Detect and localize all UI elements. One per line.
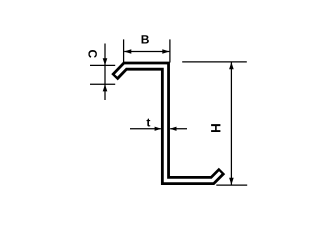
dimension C: upper arrowhead (points down) <box>103 58 108 65</box>
dimension C: lower extension line <box>90 83 115 85</box>
dimension B: dimension line <box>124 51 169 53</box>
dimension B: left arrowhead <box>124 49 131 54</box>
dimension H: lower arrowhead (points down) <box>229 178 234 185</box>
label C (rotated) <box>88 50 97 58</box>
dimension C: vertical dimension line <box>104 44 106 101</box>
label B <box>142 35 149 43</box>
label H (rotated) <box>211 124 220 132</box>
dimension B: left extension line <box>123 39 125 62</box>
dimension H: lower extension line <box>216 184 247 186</box>
dimension H: upper arrowhead (points up) <box>229 62 234 69</box>
dimension H: upper extension line <box>182 61 247 63</box>
dimension t: right arrowhead (points left) <box>170 127 177 131</box>
label t <box>147 119 151 127</box>
dimension C: lower arrowhead (points up) <box>103 84 108 91</box>
Z-profile sheet outline (web, flanges, lips) <box>115 66 223 180</box>
dimension t: left arrowhead (points right) <box>155 127 162 131</box>
dimension t: left leader line <box>130 128 161 130</box>
dimension B: right extension line <box>169 39 171 62</box>
dimension t: right leader line <box>170 128 187 130</box>
dimension C: upper extension line <box>90 64 115 66</box>
dimension B: right arrowhead <box>162 49 169 54</box>
dimension H: vertical dimension line <box>230 62 232 185</box>
Z-profile sheet inner white gap <box>116 66 220 180</box>
